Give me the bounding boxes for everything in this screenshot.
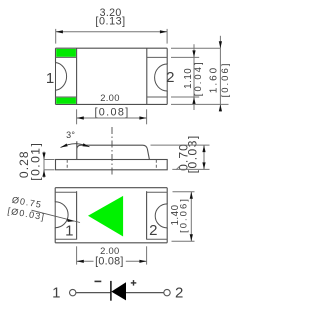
schematic minus sign (95, 280, 102, 282)
svg-text:2: 2 (175, 285, 183, 302)
dimension 1.10 arrowheads (192, 50, 195, 104)
svg-text:[0.04]: [0.04] (193, 60, 204, 96)
dimension 2.00 top arrowheads (77, 116, 147, 119)
diameter 0.75 callout text (7, 195, 46, 222)
schematic wire left (76, 292, 111, 294)
svg-text:[0.03]: [0.03] (185, 134, 199, 173)
dimension 0.28 [0.01] rotated text (17, 142, 43, 181)
top view body outline (56, 48, 168, 104)
dimension 0.70 extension and dimension lines (151, 145, 210, 170)
dimension 2.00 bottom arrowheads (77, 260, 147, 263)
top view terminal divider lines (77, 48, 147, 104)
schematic pin 2 terminal circle (164, 289, 170, 295)
dimension 1.10 extension and dimension lines (171, 44, 199, 110)
top view right castellation notch (155, 64, 168, 91)
top view terminal inner band lines (56, 57, 168, 97)
dimension 1.40 extension and dimension lines (172, 192, 195, 241)
3 degree angle arc with arrows (61, 143, 90, 147)
bottom view terminal inner lines (55, 192, 167, 239)
svg-text:2.00: 2.00 (100, 245, 119, 256)
svg-text:[0.06]: [0.06] (220, 62, 231, 98)
top view cathode green band lower (56, 98, 76, 104)
dimension 2.00 top text (94, 92, 129, 118)
svg-text:1.60: 1.60 (209, 66, 220, 93)
schematic cathode bar (110, 281, 112, 301)
dimension 0.70 [0.03] rotated text (176, 134, 199, 173)
svg-text:[0.08]: [0.08] (95, 256, 124, 268)
svg-text:[0.13]: [0.13] (95, 16, 125, 28)
svg-text:3°: 3° (66, 130, 75, 140)
dimension 2.00 bottom text (95, 245, 124, 268)
bottom view body outline (55, 188, 167, 243)
dimension 1.40 arrowheads (190, 192, 193, 241)
schematic pin 1 terminal circle (70, 289, 76, 295)
svg-text:2.00: 2.00 (100, 92, 119, 103)
dimension 1.40 [0.06] rotated text (170, 197, 189, 233)
diameter 0.75 leader line (32, 210, 81, 222)
polarity green triangle (88, 196, 123, 237)
svg-text:2: 2 (166, 69, 174, 86)
svg-text:2: 2 (149, 222, 157, 239)
svg-text:1: 1 (52, 285, 60, 302)
dimension 0.28 arrowheads (42, 153, 45, 177)
dimension 3.20 [0.13] text (95, 7, 125, 27)
top view cathode green band upper (56, 49, 76, 57)
dimension 3.20 arrowheads (56, 30, 167, 33)
svg-text:1: 1 (65, 222, 73, 239)
svg-text:1: 1 (46, 70, 54, 87)
side view terminal hidden lines (67, 160, 156, 170)
dimension 0.70 arrowheads (202, 145, 205, 169)
schematic diode triangle D1 (111, 282, 126, 300)
schematic wire right (126, 292, 164, 294)
diameter 0.75 leader arrowhead (67, 219, 74, 222)
dimension 1.60 extension and dimension lines (171, 36, 229, 112)
svg-text:[0.06]: [0.06] (178, 197, 189, 233)
bottom view right castellation notch (155, 204, 167, 228)
dimension 1.60 arrowheads (219, 41, 222, 111)
dimension 0.28 extension and dimension lines (44, 152, 55, 178)
bottom view left castellation notch (55, 202, 68, 228)
bottom view terminal divider lines (77, 191, 147, 239)
top view left castellation notch (56, 63, 67, 91)
dimension 1.10 [0.04] rotated text (183, 60, 204, 96)
dimension 2.00 bottom extension ticks and dimension line (77, 246, 147, 264)
side view lens profile (77, 141, 150, 159)
side view base rectangle (56, 160, 168, 170)
dimension 2.00 top extension ticks and dimension line (77, 109, 147, 124)
svg-text:[0.01]: [0.01] (29, 142, 43, 181)
side view centerline (dash-dot) (111, 127, 113, 177)
dimension 1.60 [0.06] rotated text (209, 62, 232, 98)
schematic plus sign (131, 280, 137, 286)
dimension 3.20 extension lines and dimension line (56, 29, 167, 44)
svg-text:[0.08]: [0.08] (94, 106, 129, 118)
